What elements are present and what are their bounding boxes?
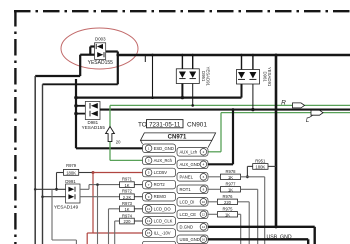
svg-text:R975: R975 <box>222 207 233 212</box>
wire R975 <box>208 214 241 244</box>
svg-text:YESAD155: YESAD155 <box>88 60 114 66</box>
wire D961 pins <box>241 55 243 70</box>
resistor R973 <box>120 201 135 212</box>
svg-text:14: 14 <box>202 225 206 229</box>
wire R979 left <box>57 173 64 190</box>
pin 11 LCD_DO <box>143 205 176 214</box>
text TO 7231-05-11 CN901 <box>138 120 207 129</box>
svg-text:D991: D991 <box>65 179 76 184</box>
wire R978 <box>208 177 265 244</box>
svg-text:CN901: CN901 <box>187 122 207 129</box>
svg-text:CN971: CN971 <box>168 135 187 141</box>
wire R973 left <box>109 209 120 244</box>
svg-text:180K: 180K <box>255 165 265 170</box>
border dash-dot top <box>14 10 350 12</box>
svg-text:1K: 1K <box>228 187 233 192</box>
svg-text:R977: R977 <box>225 182 236 187</box>
wire red LCD5V <box>93 172 143 174</box>
wire D.GND thick <box>208 227 315 244</box>
svg-text:L: L <box>306 118 309 124</box>
svg-text:ESD_GND: ESD_GND <box>154 146 174 151</box>
svg-text:7231-05-11: 7231-05-11 <box>149 121 181 128</box>
wire D003 left net <box>35 47 94 77</box>
wire AUX_GND thick <box>208 110 233 165</box>
wire D991 loop to R971 <box>80 185 120 190</box>
svg-text:R973: R973 <box>122 201 133 206</box>
svg-text:20: 20 <box>116 139 121 144</box>
pin 6 PANEL <box>177 173 208 182</box>
svg-text:YESAD91: YESAD91 <box>267 67 272 87</box>
svg-text:R971: R971 <box>122 177 133 182</box>
resistor R975 <box>218 207 238 218</box>
svg-text:R951: R951 <box>255 158 266 163</box>
wire gray V3 <box>52 189 76 244</box>
svg-text:YESAD91: YESAD91 <box>206 67 211 87</box>
wire R974 left <box>115 221 120 244</box>
border dash-dot left <box>14 10 16 244</box>
wire green Lch <box>208 113 350 152</box>
svg-text:ROT1: ROT1 <box>180 187 192 192</box>
wire vertical line1 left <box>34 76 36 244</box>
pin 3 AUX_Rch <box>143 156 176 165</box>
wire gnd bus mid y97 <box>76 96 242 98</box>
wire drop x97 <box>97 185 99 244</box>
resistor R978 <box>221 169 241 180</box>
arrow off-board 20 <box>106 127 115 142</box>
node junction D991 top <box>55 188 58 191</box>
svg-text:2.2K: 2.2K <box>123 195 132 200</box>
wire green Rch <box>110 105 350 160</box>
node junction red <box>92 171 95 174</box>
wire D981 stubs <box>76 105 85 107</box>
svg-text:12: 12 <box>202 213 206 217</box>
svg-text:10: 10 <box>202 200 206 204</box>
resistor R979 <box>64 163 79 176</box>
wire R951 <box>247 166 276 176</box>
svg-text:11: 11 <box>147 207 150 211</box>
node junction bus97 <box>151 96 154 99</box>
svg-text:LCD_CE: LCD_CE <box>180 212 197 217</box>
wire R979 right <box>79 172 93 174</box>
svg-text:ROT2: ROT2 <box>154 182 166 187</box>
pin 8 ROT1 <box>177 185 208 194</box>
resistor R976 <box>218 194 238 205</box>
svg-text:LCD_DI: LCD_DI <box>180 199 195 204</box>
svg-text:R978: R978 <box>225 169 236 174</box>
resistor R971 <box>120 177 135 188</box>
wire gnd trunk right <box>275 55 278 227</box>
svg-text:1K: 1K <box>225 212 230 217</box>
svg-text:R972: R972 <box>122 189 133 194</box>
svg-text:D961: D961 <box>262 71 267 82</box>
node junctions trunk <box>74 96 78 100</box>
svg-text:D003: D003 <box>95 36 106 41</box>
wire D991 left stubs <box>35 188 65 190</box>
svg-text:YESAD149: YESAD149 <box>54 205 79 211</box>
wire gnd trunk left <box>76 79 143 148</box>
wire stub on bus <box>144 56 146 62</box>
pin 12 LCD_CE <box>177 210 208 219</box>
connector CN971 left column <box>143 144 176 237</box>
wire red vertical <box>92 173 94 234</box>
wire D003 right to bus <box>106 52 118 85</box>
pin 5 LCD5V <box>143 168 176 177</box>
svg-text:REMO: REMO <box>154 194 167 199</box>
svg-text:1K: 1K <box>228 175 233 180</box>
svg-text:220: 220 <box>124 219 132 224</box>
wire signal bus y109 <box>100 109 350 111</box>
wire R977 <box>208 189 258 244</box>
svg-text:PANEL: PANEL <box>180 174 194 179</box>
pin 16 USB_GND <box>177 235 208 244</box>
svg-text:USB_GND: USB_GND <box>180 237 200 242</box>
svg-text:220: 220 <box>224 200 232 205</box>
svg-text:LCD_CLK: LCD_CLK <box>154 218 173 223</box>
pin 7 ROT2 <box>143 180 176 189</box>
diode pack D951 <box>176 67 210 87</box>
svg-text:LCD_DO: LCD_DO <box>154 206 172 211</box>
wire gnd link vertical <box>152 55 154 98</box>
wire D991 to R972 <box>80 196 120 198</box>
resistor R974 <box>120 213 135 224</box>
svg-text:LCD5V: LCD5V <box>154 170 168 175</box>
diode D981 <box>82 102 106 131</box>
svg-text:YESAD155: YESAD155 <box>82 125 106 130</box>
svg-text:R979: R979 <box>66 163 77 168</box>
resistor R972 <box>120 189 135 200</box>
pin 14 D.GND <box>177 223 208 232</box>
svg-text:R974: R974 <box>122 213 133 218</box>
svg-text:USB_GND: USB_GND <box>267 234 292 240</box>
connector CN971 right column <box>177 148 208 244</box>
svg-text:R976: R976 <box>222 194 233 199</box>
resistor R951 <box>253 158 268 169</box>
svg-text:D951: D951 <box>201 71 206 82</box>
diode D991 <box>54 179 80 211</box>
wire gnd bus top <box>117 54 350 57</box>
flag L <box>311 110 323 115</box>
svg-text:15: 15 <box>147 231 151 235</box>
wire red drop <box>87 233 93 244</box>
wire horizontal y84 <box>43 83 118 85</box>
diode pack D961 <box>237 67 273 87</box>
pin 13 LCD_CLK <box>143 217 176 226</box>
highlight ellipse <box>61 28 138 69</box>
svg-text:16: 16 <box>202 238 206 242</box>
svg-text:1K: 1K <box>124 207 129 212</box>
pin 17 partial <box>143 241 176 244</box>
svg-text:R: R <box>281 100 286 107</box>
pin 10 LCD_DI <box>177 198 208 207</box>
pin 2 AUX_Lch <box>177 148 208 157</box>
pin 4 AUX_GND <box>177 160 208 169</box>
svg-text:180K: 180K <box>66 171 76 176</box>
svg-text:13: 13 <box>147 219 151 223</box>
svg-text:AUX_Lch: AUX_Lch <box>180 149 198 154</box>
wire USB_GND thick <box>208 239 308 244</box>
wire R976 <box>208 202 249 244</box>
svg-text:AUX_Rch: AUX_Rch <box>154 158 173 163</box>
svg-text:D.GND: D.GND <box>180 224 194 229</box>
node junction bus55 <box>151 54 154 57</box>
pin 15 ILL_-10V <box>143 229 176 238</box>
wire red ILL <box>93 232 143 234</box>
svg-text:1K: 1K <box>124 183 129 188</box>
resistor R977 <box>221 182 241 193</box>
svg-text:ILL_-10V: ILL_-10V <box>154 231 171 236</box>
svg-text:TO: TO <box>138 122 147 129</box>
svg-text:AUX_GND: AUX_GND <box>180 162 200 167</box>
pin 9 REMO <box>143 192 176 201</box>
wire D951 pins <box>181 55 183 69</box>
pin 1 ESD_GND <box>143 144 176 153</box>
wire vertical line2 left <box>42 84 44 244</box>
connector CN971 header <box>141 133 216 148</box>
node junction jog <box>116 54 119 57</box>
diode D003 <box>88 36 114 66</box>
